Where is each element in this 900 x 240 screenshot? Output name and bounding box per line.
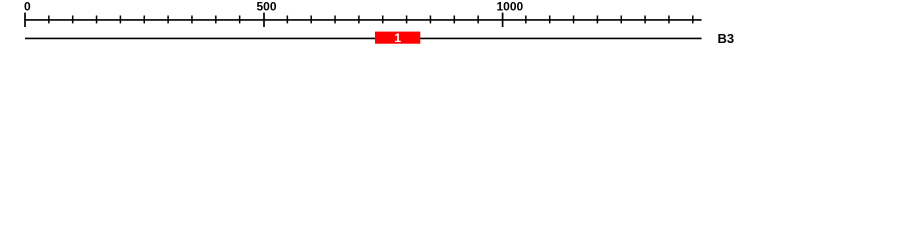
minor tick 950 — [477, 16, 479, 24]
minor tick 800 — [406, 16, 408, 24]
svg-text:B3: B3 — [718, 31, 735, 46]
svg-text:0: 0 — [24, 0, 31, 14]
minor tick 350 — [191, 16, 193, 24]
feature track line — [25, 37, 702, 39]
minor tick 150 — [96, 16, 98, 24]
svg-text:1: 1 — [394, 31, 401, 45]
minor tick 1250 — [620, 16, 622, 24]
minor tick 250 — [143, 16, 145, 24]
minor tick 900 — [453, 16, 455, 24]
minor tick 600 — [310, 16, 312, 24]
minor tick 1200 — [596, 16, 598, 24]
minor tick 300 — [167, 16, 169, 24]
minor tick 1300 — [644, 16, 646, 24]
minor tick 1400 — [692, 16, 694, 24]
feature box 1 (red) — [375, 32, 420, 44]
major tick 0 — [24, 13, 26, 27]
ruler baseline — [25, 19, 702, 21]
svg-text:1000: 1000 — [497, 0, 524, 14]
minor tick 550 — [286, 16, 288, 24]
minor tick 50 — [48, 16, 50, 24]
minor tick 650 — [334, 16, 336, 24]
svg-text:500: 500 — [257, 0, 277, 14]
minor tick 1150 — [573, 16, 575, 24]
minor tick 850 — [429, 16, 431, 24]
major tick 500 — [263, 13, 265, 27]
minor tick 750 — [382, 16, 384, 24]
minor tick 450 — [239, 16, 241, 24]
minor tick 1350 — [668, 16, 670, 24]
minor tick 1100 — [549, 16, 551, 24]
major tick 1000 — [502, 13, 504, 27]
minor tick 400 — [215, 16, 217, 24]
minor tick 1050 — [525, 16, 527, 24]
minor tick 700 — [358, 16, 360, 24]
minor tick 100 — [72, 16, 74, 24]
minor tick 200 — [119, 16, 121, 24]
